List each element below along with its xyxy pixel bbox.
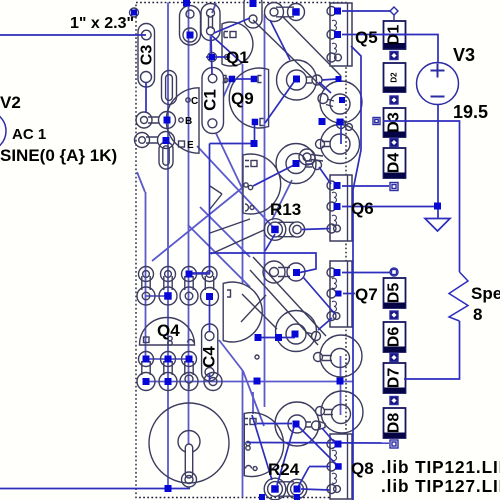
transistor Q6 package xyxy=(327,175,352,241)
pin number marks TO220s xyxy=(332,20,336,483)
wire row y=274 link xyxy=(189,273,210,275)
svg-text:1" x 2.3": 1" x 2.3" xyxy=(70,15,134,32)
pin marks Q10 xyxy=(244,419,257,471)
svg-text:D4: D4 xyxy=(386,153,403,174)
wire diag top wedge a xyxy=(253,20,325,90)
wire vertical trace x=188.5 xyxy=(188,3,190,446)
junction circle G2 xyxy=(293,421,300,428)
wire diag T4 to corner xyxy=(211,230,264,254)
wire diag Q2 E to R13 xyxy=(197,146,273,227)
wire diag X b xyxy=(241,295,266,322)
pad row E of Q2 xyxy=(135,132,175,149)
svg-text:Q8: Q8 xyxy=(351,459,374,478)
wire Q6 pad2 to ground junction xyxy=(342,206,438,208)
terminal t8 xyxy=(390,354,398,362)
resistor speaker zigzag xyxy=(449,272,468,321)
wire Q1 base stub xyxy=(206,56,227,58)
terminal t7 xyxy=(390,311,398,319)
capacitor C4 xyxy=(202,324,218,381)
wire db2 to pad57 xyxy=(210,36,212,53)
pad dogbone below C3 xyxy=(162,71,177,105)
svg-text:B: B xyxy=(185,116,192,127)
terminal t4 xyxy=(390,139,398,147)
pad circle B xyxy=(318,81,362,129)
diode D4 xyxy=(384,148,406,178)
wire across D3 xyxy=(383,120,405,122)
pad circle E xyxy=(276,311,321,352)
junction Q6 pad2 xyxy=(334,203,341,210)
wire Q9 pads link xyxy=(236,78,251,80)
resistor R24 pads xyxy=(264,478,307,500)
junction ground node xyxy=(434,203,441,210)
wire F to junction vertical xyxy=(340,356,342,415)
wire Q8 pad1 to D8 terminal xyxy=(247,442,389,445)
wire diag dbF to circleA xyxy=(270,20,290,60)
wire diag dbH to Q7 pad3 xyxy=(303,277,335,314)
junction top center xyxy=(250,0,257,7)
wire diag can M bottom xyxy=(210,219,250,233)
wire vertical trace x=264.5 xyxy=(264,14,266,407)
pad dogbone rowA x210 xyxy=(201,267,219,306)
wire diag E bone to Q7 pad3 xyxy=(318,318,332,330)
wire diag C4 to bottom xyxy=(243,371,264,426)
junction circle C xyxy=(293,160,300,167)
voltage source V2 xyxy=(0,111,6,151)
pad dogbone rowA x146 xyxy=(137,267,155,306)
ground symbol xyxy=(425,219,450,232)
junction Q9 pad2 xyxy=(251,76,258,83)
junction right of A bone xyxy=(336,76,342,82)
junction bottom edge 297 xyxy=(294,494,300,500)
junction E left pads xyxy=(255,334,262,341)
transistor Q10 outline xyxy=(244,413,283,477)
node B mark xyxy=(179,118,183,122)
junction border pad xyxy=(131,10,137,16)
wire vertical C1 top link xyxy=(211,37,212,74)
terminal port on D3 wire xyxy=(373,118,380,125)
junction rowB bottoms xyxy=(143,378,150,385)
junction Q9 pad3 xyxy=(252,119,259,126)
node mark E area xyxy=(255,355,259,359)
svg-text:D1: D1 xyxy=(386,25,403,46)
terminal t1 diamond xyxy=(390,7,398,21)
junction B bottom pad left xyxy=(319,118,326,125)
junction rowA xyxy=(164,292,172,300)
wire vertical trace x=242.5 upper xyxy=(242,64,244,284)
pad dogbone top F xyxy=(265,3,305,22)
junction pad B row xyxy=(164,117,171,124)
junction Q8 pad2 xyxy=(335,463,342,470)
wire can pin to G2 pad xyxy=(257,423,292,425)
terminal t6 xyxy=(390,268,398,276)
wire wedge arrow a xyxy=(210,186,222,194)
junction pad 254 xyxy=(251,140,258,147)
pad dogbone rowA x189 xyxy=(180,267,198,306)
pad dogbone rowB x189 xyxy=(180,352,198,391)
pin mark Q3 xyxy=(227,290,231,297)
pad dogbone top db1 xyxy=(180,6,201,46)
wire circle B pad to D center xyxy=(340,124,342,144)
pin marks Q4 xyxy=(144,336,194,345)
transistor Q11 outline xyxy=(243,154,281,214)
junction R13 pad1 xyxy=(271,226,279,234)
junction circle B xyxy=(339,97,345,103)
transistor Q9 outline xyxy=(229,68,268,128)
wire input left bottom xyxy=(0,488,190,490)
pad dogbone rowB x146 xyxy=(137,352,155,391)
wire diag top wedge b xyxy=(283,17,341,76)
svg-text:Q9: Q9 xyxy=(231,89,254,108)
junction Q7 pad2 xyxy=(336,291,342,297)
junction bottom wire xyxy=(165,485,172,492)
svg-text:D7: D7 xyxy=(386,368,403,389)
junction dbH xyxy=(293,269,300,276)
wire junction left xyxy=(210,143,255,145)
wire row y=296 link xyxy=(146,295,168,297)
junction rowA x210 xyxy=(206,293,213,300)
pad circle C xyxy=(276,144,322,184)
svg-text:D5: D5 xyxy=(386,283,403,304)
wire diag Q9 pad to circle A xyxy=(265,79,296,123)
diode D7 xyxy=(384,363,406,393)
svg-text:Speaker: Speaker xyxy=(471,284,500,303)
terminal t10 xyxy=(390,440,398,448)
pad dogbone rowA x168 xyxy=(159,267,177,306)
wire diag C to Q6 xyxy=(319,167,331,184)
transistor Q8 package xyxy=(327,434,352,499)
board outline xyxy=(136,3,346,498)
wire diag C to R13 xyxy=(272,180,292,220)
pad circle A xyxy=(277,60,323,100)
svg-text:E: E xyxy=(187,140,194,151)
pad dogbone rowB x168 xyxy=(159,352,177,391)
pad dogbone top center xyxy=(244,0,262,28)
wire E pads link xyxy=(258,337,295,339)
wire vertical trace x=242.5 lower xyxy=(242,370,244,497)
pad bone left of D xyxy=(299,149,323,165)
wire diag R13 to T4 xyxy=(265,234,275,251)
wire diag A bone to circle B xyxy=(319,82,331,93)
diode D8 xyxy=(384,408,406,438)
node mark Q1 base xyxy=(225,55,230,60)
junction B bottom pad xyxy=(337,119,344,126)
pin mark Q1 xyxy=(224,32,236,38)
wire diag G2 bone to Q8 pad1 xyxy=(322,428,334,442)
junction db1 pad xyxy=(187,32,194,39)
pad circle D xyxy=(316,125,360,164)
wire diag wedge F a xyxy=(253,257,326,336)
wire diag wedge F b xyxy=(250,270,318,345)
wire D3 to speaker top xyxy=(405,121,460,272)
diode D3 xyxy=(384,108,406,137)
junction pad E row xyxy=(163,137,170,144)
wire row y=382 link xyxy=(146,381,353,383)
diode D2 xyxy=(384,63,406,92)
transistor Q7 package xyxy=(327,261,352,327)
svg-text:D2: D2 xyxy=(390,72,399,83)
pad rowB x213 xyxy=(204,373,222,391)
junction Q5 pad1 xyxy=(334,8,341,15)
wire wedge arrow b xyxy=(210,194,222,209)
transistor Q2 outline xyxy=(166,88,199,153)
svg-text:D8: D8 xyxy=(386,413,403,434)
wire diag C4 area xyxy=(219,340,243,371)
wire vertical trace x=168 xyxy=(167,3,169,489)
wire net to dbH pad xyxy=(189,144,316,275)
wire Q7 pad1 to D5 terminal xyxy=(342,272,390,274)
wire diag R24 link xyxy=(298,467,309,487)
svg-text:19.5: 19.5 xyxy=(453,102,488,122)
svg-text:Q5: Q5 xyxy=(355,28,378,47)
wire Q11 to circle C xyxy=(253,165,294,186)
terminal t3 xyxy=(390,96,398,104)
junction long wire pad xyxy=(254,378,261,385)
wire R13 to Q6 pad3 xyxy=(302,229,330,230)
pad dogbone H xyxy=(263,261,305,283)
wire diag border stub xyxy=(137,172,145,192)
wire vertical x=210 C4 link xyxy=(209,296,211,331)
rings pad xyxy=(346,124,353,131)
pad circle F xyxy=(314,335,363,377)
pad row B of Q2 xyxy=(136,112,176,129)
wire Q5 pad2 to V3 top xyxy=(342,35,438,63)
pad dogbone lower cluster xyxy=(159,142,173,169)
junction R24 pad1 xyxy=(271,485,279,493)
wire diag pair lower a xyxy=(188,225,250,287)
voltage source V3 xyxy=(417,63,459,105)
transistor Q5 package xyxy=(327,3,352,66)
wire Q8 pad2 stub xyxy=(309,466,330,468)
pin marks Q11 xyxy=(244,161,257,212)
svg-text:Q4: Q4 xyxy=(157,321,180,340)
svg-text:D3: D3 xyxy=(386,112,403,133)
svg-text:C3: C3 xyxy=(139,45,156,66)
junction rowA x189 xyxy=(186,271,193,278)
capacitor C3 xyxy=(138,24,155,88)
wire diag C1 to mid xyxy=(213,127,242,188)
resistor R13 pads xyxy=(264,219,304,241)
pad circle H big xyxy=(149,403,229,487)
wire input left top xyxy=(0,34,146,36)
svg-text:V2: V2 xyxy=(0,93,21,112)
wire diag db1 to Q1 pads xyxy=(211,35,242,63)
wire D1 top to Q5 pad1 xyxy=(342,10,391,12)
wire R24 to Q8 pad3 xyxy=(301,489,330,490)
wire diag X a xyxy=(242,294,277,329)
junction Q5 pad2 xyxy=(334,31,341,38)
wire diag can to R24 xyxy=(252,415,272,480)
junction Q9 pad1 xyxy=(229,76,236,83)
junction pad 212 xyxy=(209,54,215,60)
wire speaker bottom to D7 xyxy=(404,321,460,379)
wire Q column vertical xyxy=(351,46,361,500)
svg-text:C4: C4 xyxy=(200,346,219,368)
junction top t2 xyxy=(183,0,190,7)
svg-text:AC 1: AC 1 xyxy=(12,126,46,143)
wire across D1 xyxy=(383,34,405,36)
terminal t5 xyxy=(390,183,398,191)
junction circle A xyxy=(293,76,300,83)
junction F wire xyxy=(337,378,344,385)
junction rowB tops xyxy=(143,356,150,363)
wire Q9 pad3 down xyxy=(254,125,256,144)
wire vertical trace x=146 mid xyxy=(145,192,147,360)
wire diag C1 pad to Q9 pad xyxy=(212,80,231,122)
node E mark xyxy=(179,141,185,147)
svg-text:.lib TIP127.LIB: .lib TIP127.LIB xyxy=(381,476,500,496)
wire can stub vertical xyxy=(252,392,254,414)
wire row y=359 link xyxy=(146,358,189,360)
pad on border left xyxy=(130,8,139,17)
svg-text:Q6: Q6 xyxy=(351,199,374,218)
wire diag G2 to R24 xyxy=(277,427,294,485)
junction Q7 pad1 xyxy=(334,269,341,276)
transistor Q4 outline xyxy=(140,318,195,346)
wire C3 bottom pad drop xyxy=(145,82,147,113)
diode D6 xyxy=(384,322,406,352)
junction R24 pad2 xyxy=(294,486,301,493)
svg-text:R24: R24 xyxy=(268,460,300,479)
svg-text:Q7: Q7 xyxy=(355,285,378,304)
terminal t2 xyxy=(390,52,398,60)
terminal t9 xyxy=(390,397,398,405)
node C mark xyxy=(186,98,190,102)
junction Q8 pad1 xyxy=(335,441,342,448)
junction circle E xyxy=(292,331,299,338)
wire circle C bone xyxy=(306,163,312,165)
svg-text:V3: V3 xyxy=(453,45,475,65)
junction bottom edge 262 xyxy=(259,494,265,500)
wire diag pair lower b xyxy=(200,207,250,257)
wire diag G2 to Q8 pad2 xyxy=(298,426,337,465)
svg-text:C: C xyxy=(191,96,198,107)
wire circle A bone link xyxy=(322,79,336,80)
svg-text:D6: D6 xyxy=(386,327,403,348)
pad dogbone top db2 xyxy=(201,4,220,41)
pad circle G2 xyxy=(275,402,325,446)
transistor Q3 outline xyxy=(223,282,262,342)
pad circle G1 xyxy=(316,391,364,433)
wire top pad stem xyxy=(212,3,216,13)
transistor Q1 outline xyxy=(222,22,253,66)
wire V3 bottom to ground xyxy=(437,105,439,219)
svg-text:SINE(0 {A} 1K): SINE(0 {A} 1K) xyxy=(0,146,117,165)
svg-text:R13: R13 xyxy=(270,200,301,219)
diode D1 xyxy=(384,21,406,49)
svg-text:.lib TIP121.LIB: .lib TIP121.LIB xyxy=(381,457,500,477)
diode D5 xyxy=(384,278,406,308)
wire diag top db to db1 xyxy=(214,18,250,33)
wire vertical x=210 C4 bottom xyxy=(209,374,211,381)
svg-text:Q1: Q1 xyxy=(226,48,249,67)
svg-text:8: 8 xyxy=(473,305,482,324)
wire Q6 pad1 to D4 terminal xyxy=(342,185,389,187)
pad marks Q9 xyxy=(208,53,264,126)
wire diag mid to left cluster xyxy=(152,188,242,261)
node mark C1 right xyxy=(224,78,228,82)
junction Q6 pad1 xyxy=(334,182,341,189)
wire Q7 pad2 stub xyxy=(343,293,355,295)
capacitor C1 xyxy=(202,68,224,134)
svg-text:C1: C1 xyxy=(201,89,220,111)
junction dbF xyxy=(292,8,300,16)
